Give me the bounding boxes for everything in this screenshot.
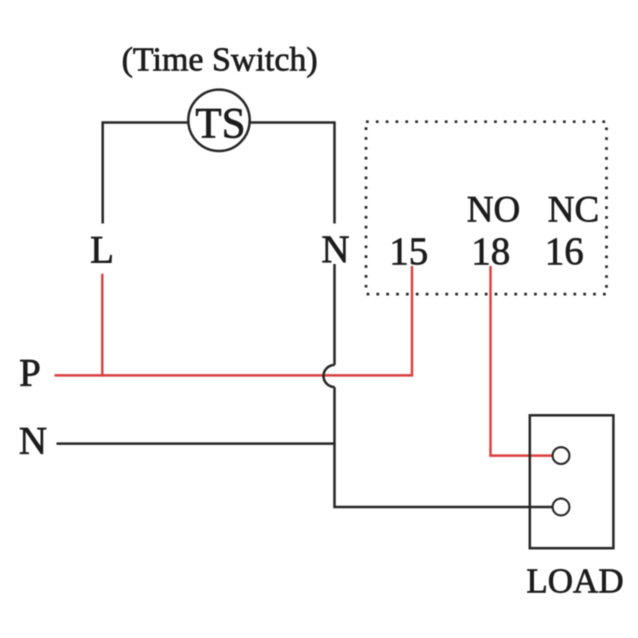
wire N supply horizontal: [57, 442, 335, 445]
wire L top (from L terminal up and right to TS): [103, 123, 196, 224]
wire N top (from TS right and down to N terminal): [243, 123, 335, 224]
timer contact block (dashed box): [366, 122, 607, 294]
wire N vertical upper (below N label): [333, 264, 336, 365]
load box: [530, 415, 614, 548]
svg-text:P: P: [19, 352, 41, 395]
wire P to pin 15 (red): [55, 266, 413, 375]
svg-text:15: 15: [389, 230, 428, 273]
svg-text:N: N: [19, 420, 47, 463]
svg-text:16: 16: [545, 230, 584, 273]
svg-text:LOAD: LOAD: [526, 561, 623, 600]
wire pin 18 to LOAD (red): [491, 266, 555, 456]
wire N vertical lower to LOAD: [335, 387, 555, 507]
svg-text:NC: NC: [548, 190, 599, 231]
terminal lower (to N): [553, 499, 570, 516]
svg-text:(Time Switch): (Time Switch): [122, 41, 318, 78]
wire L to P (red drop from L terminal): [101, 274, 103, 377]
svg-text:L: L: [90, 229, 114, 272]
svg-text:NO: NO: [467, 190, 520, 231]
time switch TS: [188, 90, 249, 151]
wire crossing hop: [324, 365, 335, 387]
terminal upper (to 18): [553, 447, 570, 464]
svg-text:TS: TS: [195, 101, 245, 148]
